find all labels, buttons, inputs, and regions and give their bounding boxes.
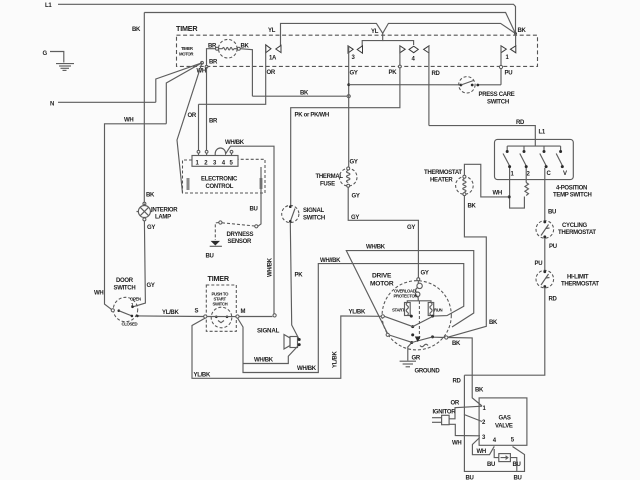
svg-text:GY: GY	[350, 71, 358, 77]
temp switch bus	[507, 145, 560, 147]
temp switch terminal 2 resistor	[525, 168, 527, 183]
svg-text:BK: BK	[452, 341, 461, 347]
wire BU from control to dryness sensor	[258, 167, 261, 226]
svg-text:OR: OR	[188, 113, 197, 119]
wire BK motor to gas valve pin 1	[448, 338, 482, 407]
svg-text:BK: BK	[132, 27, 141, 33]
wire PU cycling to hi-limit	[544, 238, 546, 271]
junction L1/BK	[514, 32, 517, 35]
wire RD contact 4 to temp switch	[429, 126, 535, 147]
wire WH heater to temp switch terminal 1	[464, 164, 509, 197]
svg-text:WH: WH	[477, 449, 486, 455]
svg-text:GY: GY	[421, 271, 429, 277]
wire YL/BK from S to motor	[192, 316, 381, 378]
svg-text:FUSE: FUSE	[320, 182, 335, 188]
svg-text:GAS: GAS	[499, 416, 511, 422]
svg-text:1A: 1A	[269, 56, 277, 62]
svg-text:GR: GR	[412, 356, 421, 362]
svg-text:PK: PK	[295, 273, 304, 279]
wire WH ignitor to pin 3	[449, 424, 480, 436]
svg-text:GY: GY	[147, 283, 155, 289]
motor switch terminals	[410, 315, 413, 318]
svg-text:VALVE: VALVE	[495, 424, 513, 430]
svg-text:BU: BU	[513, 462, 521, 468]
wire fan to WH	[166, 63, 202, 124]
svg-text:THERMOSTAT: THERMOSTAT	[558, 230, 596, 236]
svg-text:WH//BK: WH//BK	[320, 258, 341, 264]
svg-text:INTERIOR: INTERIOR	[151, 208, 178, 214]
press care switch	[459, 77, 475, 93]
wire OR ignitor to pin 1	[449, 406, 482, 419]
svg-text:DRIVE: DRIVE	[372, 273, 392, 280]
contact 1 right leg to L1 junction	[515, 34, 517, 47]
svg-text:WH/BK: WH/BK	[366, 245, 386, 251]
svg-text:PK or PK/WH: PK or PK/WH	[295, 113, 329, 119]
wire YL bus stem to contacts 3 and 4	[362, 33, 383, 46]
wire fan to N	[156, 63, 202, 103]
overload protector	[417, 278, 420, 281]
svg-text:TEMP SWITCH: TEMP SWITCH	[553, 193, 592, 199]
svg-text:YL/BK: YL/BK	[349, 310, 366, 316]
svg-text:WH: WH	[493, 191, 502, 197]
svg-text:MOTOR: MOTOR	[179, 52, 194, 57]
svg-text:HI-LIMIT: HI-LIMIT	[567, 275, 589, 281]
svg-text:RUN: RUN	[434, 308, 443, 313]
svg-text:OR: OR	[267, 70, 276, 76]
svg-text:PU: PU	[535, 261, 543, 267]
junction circle at contact 3 leg	[347, 95, 350, 98]
contact 1A	[266, 45, 271, 53]
svg-text:L1: L1	[45, 3, 52, 9]
svg-text:SWITCH: SWITCH	[213, 302, 228, 307]
wire C terminal to cycling thermostat	[544, 168, 546, 221]
svg-text:N: N	[50, 102, 54, 108]
svg-text:V: V	[563, 171, 567, 177]
wire BR to pin 2	[206, 67, 208, 151]
svg-text:IGNITOR: IGNITOR	[433, 410, 457, 416]
terminal circle PK on box edge	[399, 65, 402, 68]
wire WH/BK hop over pin 3 to pin 4	[215, 146, 274, 314]
svg-text:THERMOSTAT: THERMOSTAT	[424, 170, 462, 176]
svg-text:SENSOR: SENSOR	[228, 239, 253, 245]
svg-text:GY: GY	[351, 215, 359, 221]
svg-text:MOTOR: MOTOR	[370, 281, 394, 288]
svg-text:WH/BK: WH/BK	[268, 257, 274, 277]
svg-text:WH: WH	[452, 441, 461, 447]
svg-text:YL/BK: YL/BK	[162, 310, 179, 316]
svg-text:BU: BU	[250, 207, 258, 213]
contact 1A left leg (OR)	[199, 46, 266, 105]
terminal circle BR on box edge	[205, 65, 208, 68]
wire BK from timer motor to contact 3 leg	[252, 95, 347, 97]
svg-text:PRESS CARE: PRESS CARE	[479, 92, 515, 98]
contact 1 left leg (PU)	[500, 46, 502, 85]
svg-text:BU: BU	[206, 254, 214, 260]
wire GY thermal fuse to drive motor	[348, 187, 418, 278]
svg-text:RD: RD	[432, 71, 441, 77]
wire GY lamp to door switch	[133, 221, 145, 307]
svg-text:TIMER: TIMER	[176, 24, 198, 33]
contact 3 left leg (GY)	[348, 46, 350, 85]
svg-text:YL: YL	[268, 28, 276, 34]
wire WH/BK from M to motor loop	[238, 264, 464, 373]
temp switch unit 2	[520, 146, 528, 168]
svg-text:BK: BK	[146, 193, 155, 199]
svg-text:ELECTRONIC: ELECTRONIC	[201, 177, 238, 183]
temp switch unit C	[540, 146, 548, 168]
svg-text:WH/BK: WH/BK	[297, 366, 317, 372]
hi-limit thermostat	[536, 270, 554, 288]
motor switch arrow	[415, 337, 421, 343]
svg-text:RD: RD	[453, 379, 462, 385]
svg-text:G: G	[43, 51, 48, 57]
wire GR to ground	[408, 344, 411, 361]
electronic control box (dashed)	[183, 159, 266, 193]
svg-text:GY: GY	[147, 225, 155, 231]
svg-text:TIMER: TIMER	[181, 46, 194, 51]
svg-text:GY: GY	[352, 194, 360, 200]
svg-text:GY: GY	[350, 160, 358, 166]
svg-text:BU: BU	[514, 476, 522, 480]
svg-text:TIMER: TIMER	[208, 274, 230, 283]
terminal circle fan point	[201, 61, 204, 64]
svg-text:YL/BK: YL/BK	[194, 373, 211, 379]
wire GY contact 3 to thermal fuse	[348, 85, 350, 168]
svg-text:BU: BU	[487, 462, 495, 468]
svg-text:OPEN: OPEN	[130, 297, 141, 302]
svg-text:BK: BK	[475, 388, 484, 394]
svg-text:CONTROL: CONTROL	[206, 184, 234, 190]
pin stub circles	[197, 150, 200, 153]
dryness sensor ground electrode	[215, 223, 219, 241]
wire timer motor right to contact 1A leg	[240, 49, 252, 96]
wire BK heater to drive motor	[448, 196, 487, 338]
svg-text:RD: RD	[516, 120, 525, 126]
svg-text:SWITCH: SWITCH	[114, 286, 136, 292]
svg-text:SIGNAL: SIGNAL	[303, 208, 325, 214]
svg-text:PU: PU	[549, 244, 557, 250]
svg-text:LAMP: LAMP	[155, 215, 171, 221]
wire PU press care to contact 1	[479, 84, 501, 86]
svg-text:YL: YL	[371, 29, 379, 35]
svg-text:GROUND: GROUND	[415, 369, 441, 375]
temp switch unit 1	[503, 146, 511, 168]
wire L1 top rail	[58, 4, 516, 33]
svg-text:PU: PU	[505, 71, 513, 77]
svg-text:BU: BU	[548, 210, 556, 216]
wire fan to electronic control	[177, 63, 202, 193]
4-position temp switch box	[495, 139, 574, 179]
terminal circle WH/BK at S-M wire	[273, 314, 276, 317]
wire N	[58, 101, 156, 103]
dryness sensor left probe	[219, 221, 222, 224]
wire GY junction to press care switch	[349, 84, 460, 86]
temp switch unit V	[556, 146, 564, 168]
timer motor coil	[219, 47, 238, 50]
contact 4 right leg (RD)	[428, 46, 430, 126]
wire OR to pin 1	[198, 104, 200, 150]
svg-text:YL/BK: YL/BK	[333, 351, 339, 368]
signal switch	[282, 205, 299, 222]
dryness sensor right probe	[255, 225, 258, 228]
svg-text:START: START	[392, 308, 405, 313]
contact 4 left leg (PK) to signal wire	[291, 46, 400, 206]
wire WH/BK branch M to signal speaker	[243, 345, 299, 364]
contact 1	[501, 46, 506, 53]
wire RD hi-limit to gas valve	[464, 288, 544, 376]
motor centerline (dashed)	[418, 301, 420, 339]
wire YL to contact 1	[281, 23, 516, 46]
wire BU left drop to bottom bus	[464, 415, 524, 472]
svg-text:WH: WH	[124, 118, 133, 124]
svg-text:DOOR: DOOR	[116, 278, 134, 284]
door switch terminals and blade	[111, 309, 114, 312]
wire G lead	[50, 52, 64, 63]
wire WH jumper pin3 to pin 4	[472, 438, 494, 455]
ground symbol G	[56, 64, 74, 71]
interior lamp	[143, 202, 146, 205]
svg-text:RD: RD	[549, 297, 558, 303]
electronic control connector	[192, 156, 238, 167]
svg-text:BR: BR	[209, 119, 218, 125]
svg-text:PROTECTOR: PROTECTOR	[394, 294, 419, 299]
svg-text:CYCLING: CYCLING	[562, 223, 588, 229]
svg-text:BK: BK	[468, 204, 477, 210]
wire RD to gas valve pin 2	[464, 375, 482, 421]
svg-text:SWITCH: SWITCH	[303, 216, 325, 222]
svg-text:WH/BK: WH/BK	[254, 358, 274, 364]
svg-text:BR: BR	[209, 60, 218, 66]
contact 4	[400, 46, 405, 53]
svg-text:THERMOSTAT: THERMOSTAT	[561, 282, 599, 288]
svg-text:L1: L1	[539, 130, 546, 136]
svg-text:SWITCH: SWITCH	[487, 100, 509, 106]
timer motor terminals	[216, 47, 219, 50]
wire timer motor left to BR drop	[207, 49, 216, 67]
wire WH/BK outer loop (start)	[346, 251, 473, 334]
ground symbol motor	[400, 361, 416, 367]
temp switch terminal 1 wire	[510, 168, 525, 208]
svg-text:4-POSITION: 4-POSITION	[556, 186, 587, 192]
svg-text:SIGNAL: SIGNAL	[257, 328, 280, 335]
motor switch wires	[384, 316, 412, 326]
svg-text:BK: BK	[489, 320, 498, 326]
svg-text:PK: PK	[389, 70, 398, 76]
svg-text:CLOSED: CLOSED	[122, 322, 138, 327]
svg-text:GY: GY	[407, 225, 415, 231]
wire BK left drop (L1 net)	[143, 13, 145, 203]
svg-text:BU: BU	[466, 476, 474, 480]
dryness sensor element	[222, 223, 255, 226]
svg-text:WH/BK: WH/BK	[225, 140, 245, 146]
svg-text:M: M	[241, 309, 246, 315]
cycling thermostat	[536, 221, 554, 239]
gas valve	[479, 398, 527, 445]
svg-text:WH: WH	[94, 291, 103, 297]
svg-text:HEATER: HEATER	[430, 178, 453, 184]
motor windings bus	[407, 301, 431, 303]
wire YL/BK door switch to S	[139, 315, 205, 318]
svg-text:DRYNESS: DRYNESS	[227, 232, 254, 238]
gas valve coil	[494, 449, 499, 458]
contact 3	[348, 46, 353, 53]
svg-text:BK: BK	[518, 28, 527, 34]
svg-text:S: S	[195, 309, 199, 315]
wire WH to door switch	[105, 124, 167, 310]
wire PK signal switch to speaker	[290, 223, 299, 340]
svg-text:OR: OR	[451, 401, 460, 407]
svg-text:BK: BK	[300, 91, 309, 97]
wire BK branch to left drop	[144, 13, 515, 34]
